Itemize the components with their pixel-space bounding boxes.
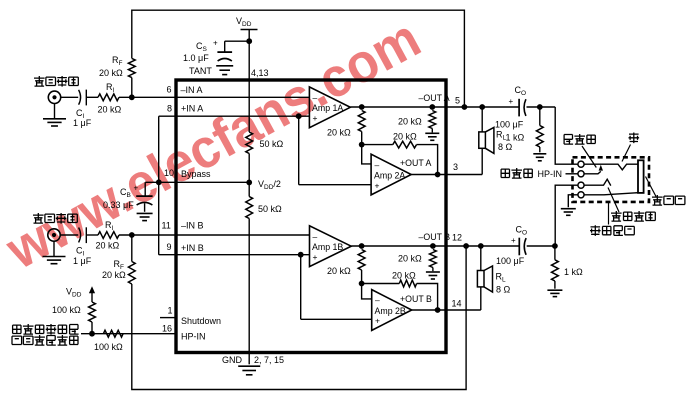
svg-text:Amp 1B: Amp 1B [312,242,343,252]
svg-text:–: – [313,93,318,103]
svg-text:+IN B: +IN B [181,243,204,253]
svg-text:Bypass: Bypass [181,169,211,179]
svg-text:20 kΩ: 20 kΩ [392,271,416,281]
svg-text:+: + [313,252,318,262]
svg-text:20 kΩ: 20 kΩ [96,241,120,251]
svg-text:0.33 μF: 0.33 μF [103,200,134,210]
svg-text:–: – [313,232,318,242]
svg-text:4,13: 4,13 [251,68,269,78]
svg-text:50 kΩ: 50 kΩ [260,139,284,149]
svg-text:1 μF: 1 μF [73,256,92,266]
svg-text:100 μF: 100 μF [495,120,524,130]
svg-text:20 kΩ: 20 kΩ [99,68,123,78]
svg-text:12: 12 [452,233,462,243]
svg-text:+: + [375,181,380,191]
svg-text:20 kΩ: 20 kΩ [393,132,417,142]
svg-text:1: 1 [168,306,173,316]
svg-text:3: 3 [453,162,458,172]
svg-text:8 Ω: 8 Ω [498,142,513,152]
svg-text:14: 14 [452,299,462,309]
svg-text:Amp 1A: Amp 1A [312,103,343,113]
svg-text:9: 9 [167,242,172,252]
svg-text:10: 10 [164,168,174,178]
svg-text:11: 11 [162,221,171,231]
svg-text:HP-IN: HP-IN [538,169,563,179]
svg-text:5: 5 [455,96,460,106]
svg-text:+: + [375,316,380,326]
svg-text:20 kΩ: 20 kΩ [327,128,351,138]
svg-text:20 kΩ: 20 kΩ [398,117,422,127]
svg-text:TANT: TANT [189,66,212,76]
svg-text:+OUT A: +OUT A [400,158,432,168]
svg-text:20 kΩ: 20 kΩ [398,254,422,264]
svg-text:–IN A: –IN A [181,85,203,95]
svg-text:20 kΩ: 20 kΩ [327,266,351,276]
svg-text:–OUT B: –OUT B [419,232,451,242]
svg-text:Amp 2A: Amp 2A [374,171,405,181]
svg-text:2, 7, 15: 2, 7, 15 [254,355,284,365]
svg-text:20 kΩ: 20 kΩ [98,105,122,115]
svg-text:8: 8 [167,104,172,114]
svg-text:+: + [509,97,514,106]
svg-text:1 kΩ: 1 kΩ [506,133,525,143]
svg-text:–: – [375,295,380,305]
svg-text:8 Ω: 8 Ω [496,285,511,295]
svg-text:–OUT A: –OUT A [419,93,450,103]
svg-text:20 kΩ: 20 kΩ [102,270,126,280]
svg-text:GND: GND [222,355,243,365]
svg-text:+: + [213,39,218,48]
svg-text:Shutdown: Shutdown [181,316,221,326]
svg-text:Amp 2B: Amp 2B [375,306,406,316]
svg-text:6: 6 [167,85,172,95]
svg-text:16: 16 [162,324,172,334]
svg-text:+IN A: +IN A [181,104,203,114]
svg-text:–: – [375,160,380,170]
svg-text:+: + [511,236,516,245]
svg-text:+: + [313,113,318,123]
svg-text:+: + [134,184,139,193]
svg-text:HP-IN: HP-IN [181,332,206,342]
svg-text:1.0 μF: 1.0 μF [183,53,209,63]
svg-text:100 μF: 100 μF [496,256,525,266]
svg-text:50 kΩ: 50 kΩ [258,204,282,214]
svg-text:100 kΩ: 100 kΩ [94,342,123,352]
svg-text:+OUT B: +OUT B [400,294,432,304]
svg-text:1 kΩ: 1 kΩ [564,267,583,277]
svg-text:1 μF: 1 μF [73,118,92,128]
svg-text:100 kΩ: 100 kΩ [52,305,81,315]
svg-text:–IN B: –IN B [181,221,204,231]
